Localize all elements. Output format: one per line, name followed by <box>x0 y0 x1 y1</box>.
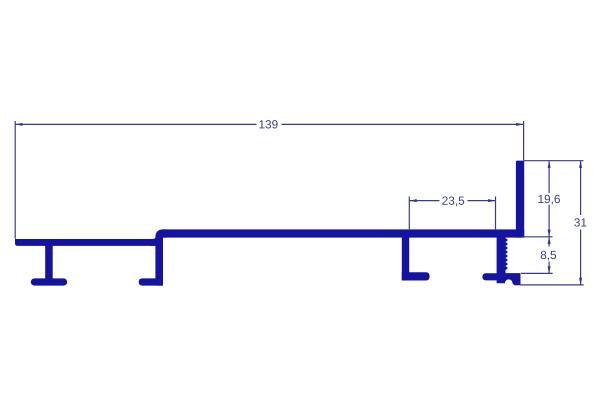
dim 8.5 extension line bottom <box>521 272 553 274</box>
arrow 23.5 left <box>409 199 416 202</box>
dim 31 line <box>580 161 582 215</box>
dim text 19.6 <box>538 195 560 205</box>
screw boss column <box>497 234 521 285</box>
arrow 139 right <box>516 123 523 126</box>
leg A stem <box>45 243 53 281</box>
arrow 8.5 top <box>548 237 551 244</box>
arrow 139 left <box>15 123 22 126</box>
arrow 19.6 bottom <box>548 230 551 237</box>
dim 19.6 line <box>548 161 550 193</box>
bottom hook arm <box>482 273 497 280</box>
leg C foot <box>402 272 430 280</box>
arrow 31 bottom <box>579 278 582 285</box>
dim 139 line <box>15 123 256 125</box>
arrow 8.5 bottom <box>548 266 551 273</box>
base flange left <box>15 239 156 246</box>
dim 23.5 extension line left <box>408 197 410 230</box>
dim 139 extension line left <box>14 121 16 239</box>
dim text 8.5 <box>541 251 556 261</box>
dim 19.6 extension line top <box>524 160 584 162</box>
top flange <box>162 229 524 237</box>
dim 31 extension line bottom <box>521 284 584 286</box>
dim text 139 <box>259 120 277 128</box>
dim text 31 <box>574 218 586 226</box>
leg A foot <box>31 278 67 285</box>
screw boss serration teeth <box>505 238 507 270</box>
leg B foot <box>139 278 163 285</box>
arrow 19.6 top <box>548 161 551 168</box>
dim 139 extension line right <box>523 121 525 160</box>
dim 8.5 line <box>548 237 550 247</box>
dim 23.5 line <box>409 200 439 202</box>
leg B stem <box>155 243 163 286</box>
step riser <box>150 229 167 246</box>
arrow 31 top <box>579 161 582 168</box>
leg C stem <box>402 234 409 281</box>
glazing upstand <box>516 161 524 238</box>
arrow 23.5 right <box>488 199 495 202</box>
dim 19.6 extension line bottom <box>522 236 553 238</box>
dim text 23.5 <box>442 196 464 206</box>
dim 23.5 extension line right <box>495 197 497 230</box>
